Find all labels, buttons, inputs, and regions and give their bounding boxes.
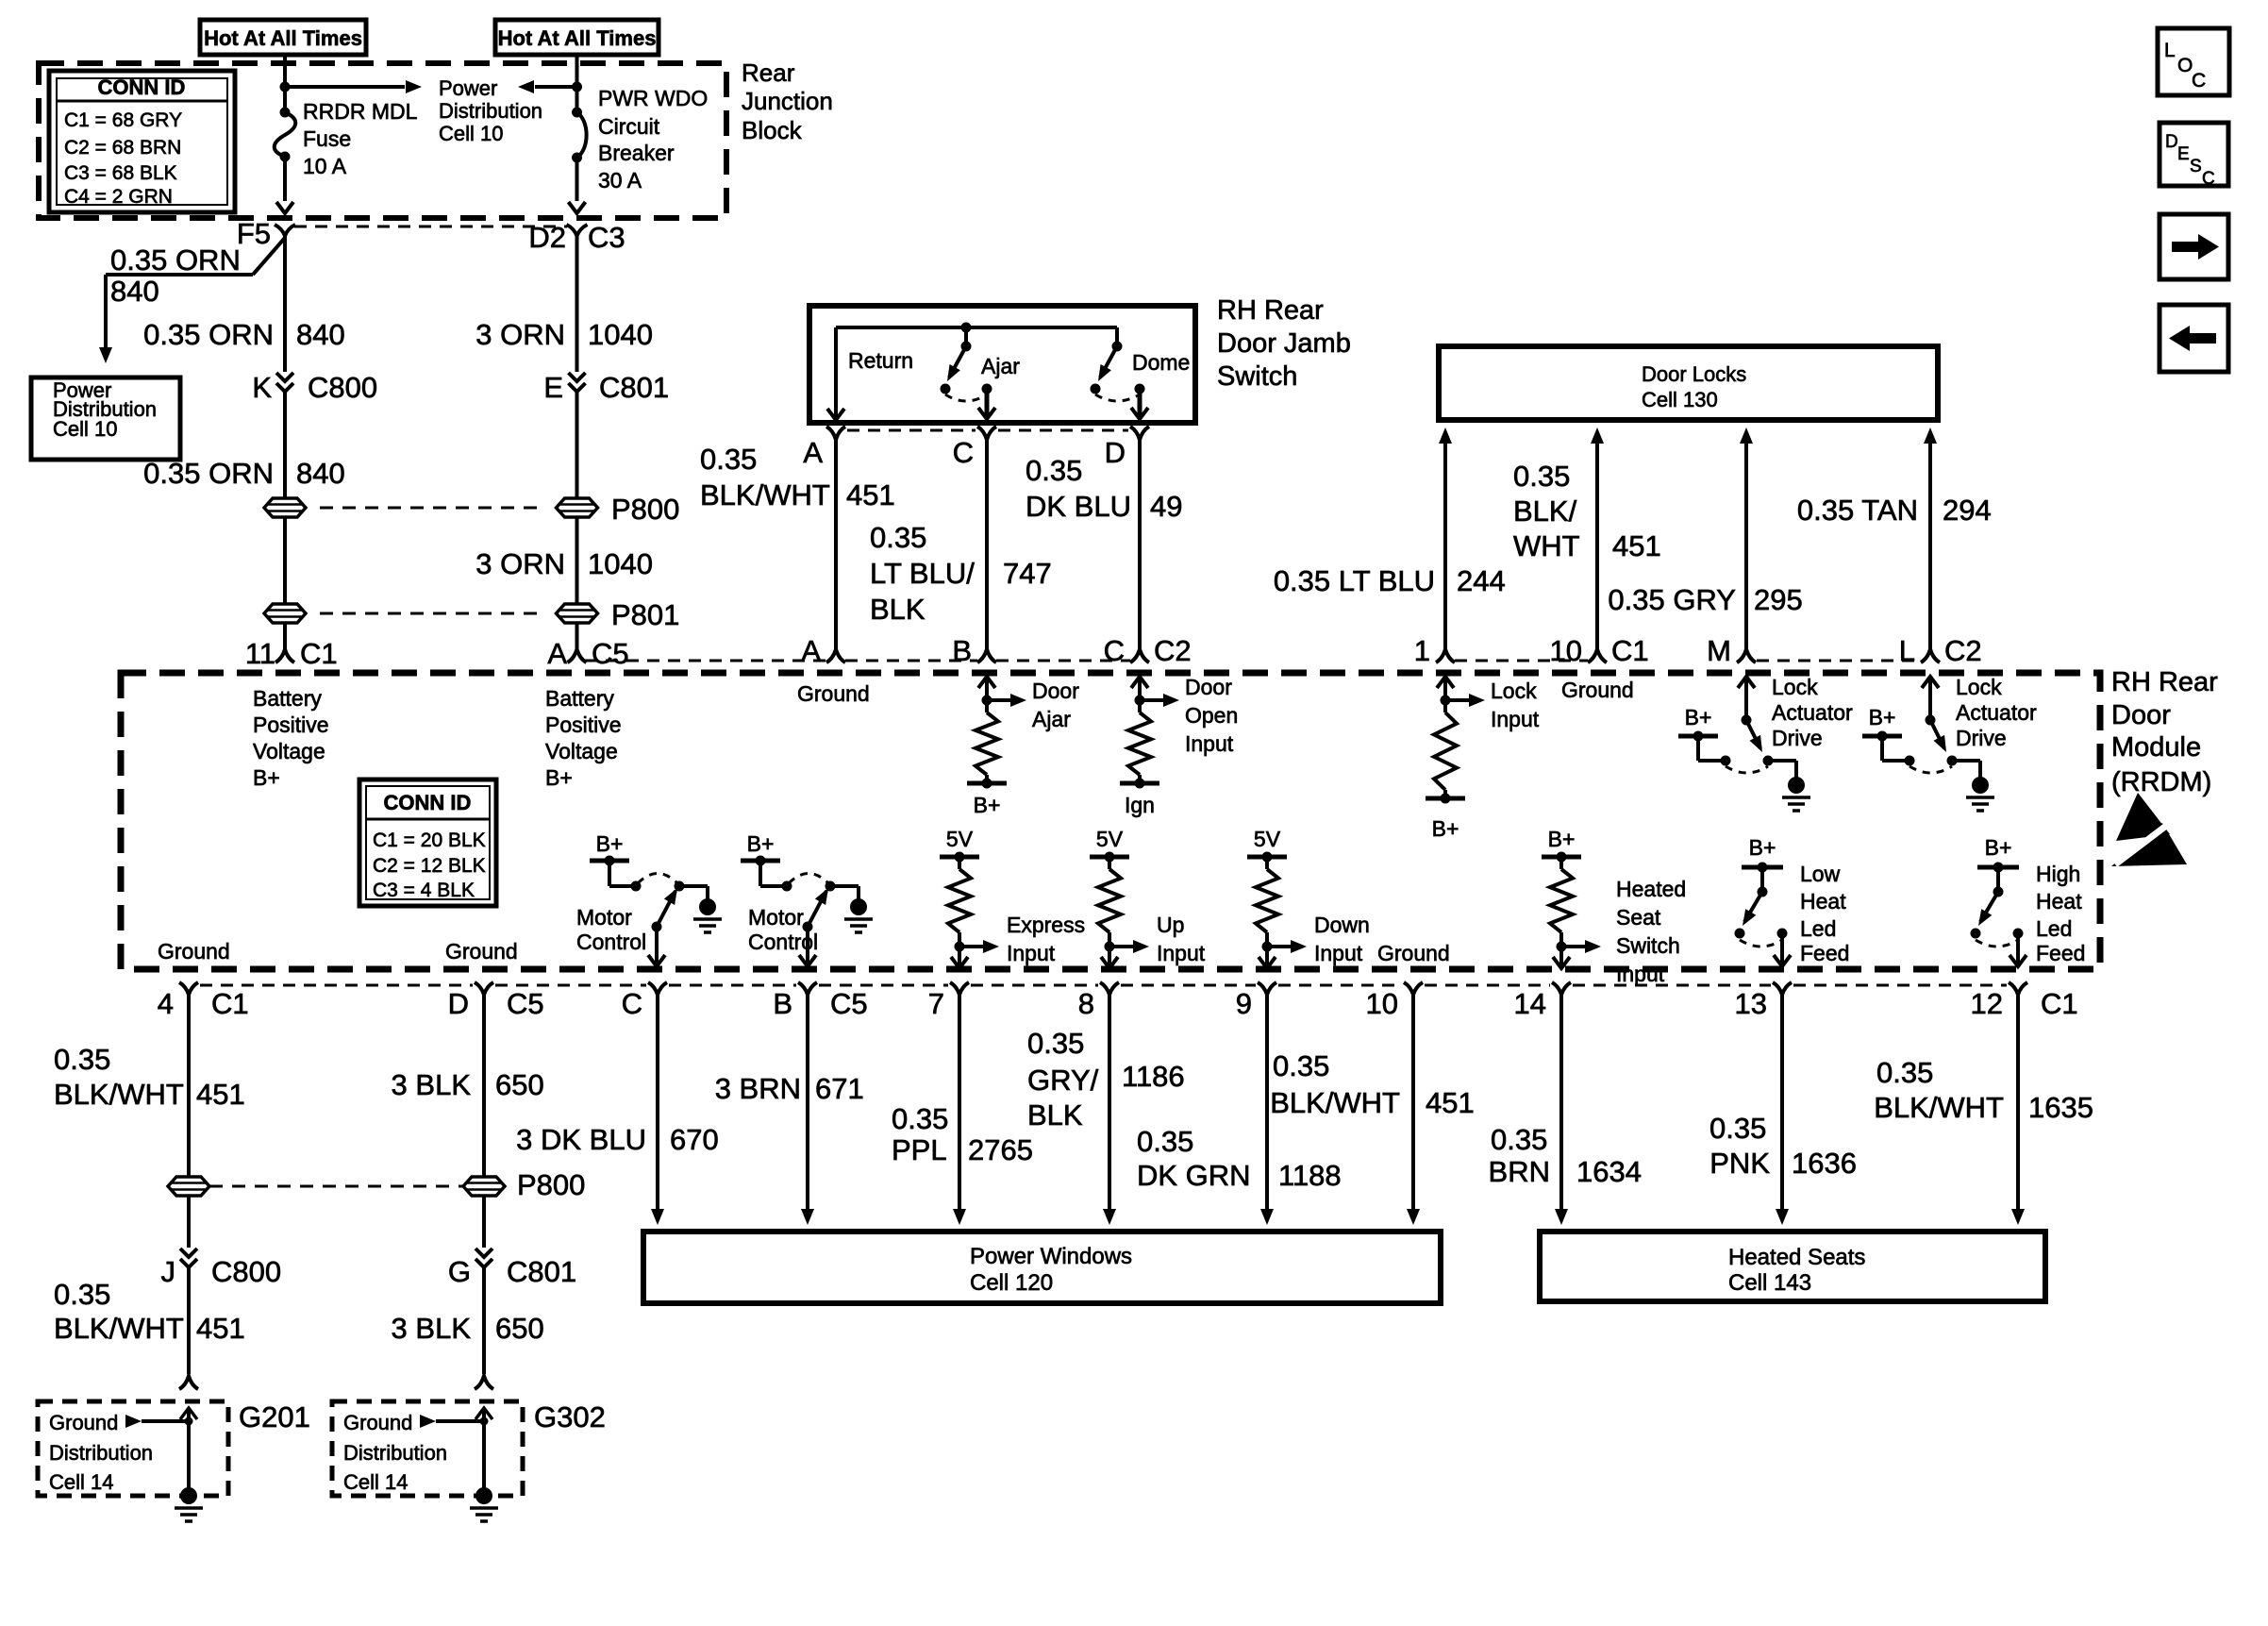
svg-text:C5: C5 (830, 987, 868, 1020)
svg-text:Dome: Dome (1132, 350, 1190, 375)
svg-text:1040: 1040 (588, 318, 653, 351)
svg-text:840: 840 (296, 457, 345, 490)
svg-text:G201: G201 (239, 1400, 310, 1433)
svg-text:Feed: Feed (2036, 941, 2085, 965)
svg-text:Open: Open (1185, 703, 1238, 728)
svg-text:WHT: WHT (1513, 529, 1580, 562)
svg-text:E: E (2177, 144, 2190, 164)
svg-text:BLK: BLK (870, 593, 926, 626)
svg-text:C5: C5 (592, 637, 629, 670)
svg-text:BLK: BLK (1027, 1098, 1083, 1131)
svg-text:13: 13 (1735, 987, 1767, 1020)
svg-text:3 ORN: 3 ORN (475, 318, 565, 351)
svg-text:RH Rear: RH Rear (2111, 667, 2218, 697)
svg-text:671: 671 (815, 1072, 864, 1105)
svg-text:A: A (547, 637, 567, 670)
svg-text:0.35: 0.35 (1513, 460, 1570, 493)
svg-text:Ground: Ground (1561, 678, 1634, 702)
svg-text:1635: 1635 (2028, 1091, 2093, 1124)
svg-text:0.35 GRY: 0.35 GRY (1608, 583, 1736, 616)
svg-text:0.35: 0.35 (700, 443, 757, 476)
svg-text:451: 451 (196, 1078, 245, 1111)
svg-text:Seat: Seat (1616, 905, 1661, 930)
svg-text:D: D (448, 987, 469, 1020)
svg-text:B+: B+ (1985, 835, 2012, 860)
svg-text:C3 = 4 BLK: C3 = 4 BLK (373, 880, 475, 901)
svg-text:C2: C2 (1944, 634, 1982, 667)
svg-text:C: C (2202, 169, 2215, 189)
svg-text:C4 = 2 GRN: C4 = 2 GRN (64, 186, 173, 208)
svg-text:Module: Module (2111, 732, 2201, 763)
svg-text:0.35 TAN: 0.35 TAN (1797, 494, 1918, 527)
svg-text:B+: B+ (596, 831, 624, 856)
svg-text:Circuit: Circuit (598, 114, 660, 139)
svg-text:C5: C5 (507, 987, 544, 1020)
svg-text:Ground: Ground (49, 1411, 118, 1434)
svg-text:Control: Control (576, 930, 646, 954)
svg-text:840: 840 (110, 275, 159, 308)
svg-text:Heat: Heat (2036, 889, 2082, 914)
svg-text:670: 670 (670, 1123, 719, 1156)
svg-text:C: C (622, 987, 642, 1020)
svg-text:(RRDM): (RRDM) (2111, 767, 2211, 797)
svg-text:Lock: Lock (1772, 675, 1818, 699)
svg-text:1186: 1186 (1122, 1060, 1185, 1093)
svg-text:D: D (1105, 436, 1126, 469)
svg-text:0.35: 0.35 (54, 1043, 110, 1076)
svg-text:Cell 130: Cell 130 (1642, 388, 1718, 411)
svg-text:Feed: Feed (1800, 941, 1849, 965)
svg-text:Power Windows: Power Windows (970, 1244, 1132, 1269)
svg-text:B+: B+ (1548, 827, 1576, 851)
svg-text:BRN: BRN (1489, 1155, 1550, 1188)
svg-text:Lock: Lock (1491, 679, 1537, 703)
svg-text:Actuator: Actuator (1956, 700, 2037, 725)
svg-text:14: 14 (1514, 987, 1546, 1020)
svg-text:Led: Led (1800, 916, 1836, 941)
svg-text:3 ORN: 3 ORN (475, 547, 565, 580)
svg-text:12: 12 (1971, 987, 2003, 1020)
svg-text:49: 49 (1150, 490, 1182, 523)
svg-text:295: 295 (1754, 583, 1803, 616)
svg-text:Cell 120: Cell 120 (970, 1270, 1053, 1296)
svg-text:M: M (1707, 634, 1731, 667)
svg-text:F5: F5 (237, 217, 271, 250)
svg-text:Door Jamb: Door Jamb (1217, 328, 1351, 359)
svg-text:DK GRN: DK GRN (1137, 1159, 1251, 1192)
svg-text:Positive: Positive (545, 712, 622, 737)
svg-text:1040: 1040 (588, 547, 653, 580)
svg-text:650: 650 (495, 1312, 544, 1345)
svg-text:J: J (161, 1255, 176, 1288)
svg-text:Block: Block (742, 116, 803, 144)
svg-text:11: 11 (245, 637, 275, 670)
svg-text:0.35: 0.35 (1709, 1112, 1766, 1145)
svg-text:Switch: Switch (1217, 361, 1297, 392)
svg-text:5V: 5V (946, 827, 974, 851)
svg-text:9: 9 (1236, 987, 1252, 1020)
svg-text:Heated: Heated (1616, 877, 1686, 901)
svg-text:650: 650 (495, 1068, 544, 1101)
svg-text:Rear: Rear (742, 59, 795, 87)
svg-text:D2: D2 (528, 221, 566, 254)
svg-text:P800: P800 (611, 493, 679, 526)
svg-text:0.35: 0.35 (892, 1102, 948, 1135)
svg-text:Ground: Ground (1377, 941, 1450, 965)
svg-text:Heated Seats: Heated Seats (1728, 1245, 1865, 1270)
svg-text:C: C (1104, 634, 1125, 667)
svg-text:Voltage: Voltage (253, 739, 325, 763)
svg-text:3 BLK: 3 BLK (392, 1312, 472, 1345)
svg-text:3 BLK: 3 BLK (392, 1068, 472, 1101)
svg-text:0.35: 0.35 (1027, 1027, 1084, 1060)
svg-text:Drive: Drive (1956, 726, 2007, 750)
svg-text:BLK/WHT: BLK/WHT (54, 1078, 184, 1111)
svg-text:2765: 2765 (968, 1133, 1033, 1166)
svg-text:0.35: 0.35 (1491, 1123, 1547, 1156)
svg-text:Power: Power (439, 76, 497, 100)
svg-text:Express: Express (1007, 913, 1085, 937)
svg-text:0.35 LT BLU: 0.35 LT BLU (1274, 564, 1435, 597)
svg-text:Low: Low (1800, 862, 1841, 886)
svg-text:G302: G302 (534, 1400, 606, 1433)
svg-text:7: 7 (928, 987, 944, 1020)
svg-text:C: C (953, 436, 974, 469)
svg-text:Door: Door (1032, 679, 1079, 703)
svg-text:C1: C1 (300, 637, 338, 670)
svg-text:C3: C3 (588, 221, 625, 254)
svg-text:B: B (773, 987, 792, 1020)
svg-text:P800: P800 (517, 1168, 585, 1201)
svg-text:451: 451 (196, 1312, 245, 1345)
svg-text:B+: B+ (1869, 705, 1896, 729)
svg-text:B+: B+ (1432, 816, 1459, 841)
svg-text:30 A: 30 A (598, 168, 642, 193)
svg-text:D: D (2165, 132, 2178, 152)
svg-text:Junction: Junction (742, 87, 833, 115)
svg-text:Ground: Ground (445, 939, 518, 964)
svg-text:Voltage: Voltage (545, 739, 618, 763)
svg-text:8: 8 (1078, 987, 1094, 1020)
svg-text:Input: Input (1314, 941, 1363, 965)
svg-text:Led: Led (2036, 916, 2072, 941)
svg-text:S: S (2190, 157, 2202, 176)
svg-text:Control: Control (748, 930, 818, 954)
svg-text:BLK/WHT: BLK/WHT (54, 1312, 184, 1345)
svg-text:Up: Up (1157, 913, 1184, 937)
svg-text:Drive: Drive (1772, 726, 1823, 750)
svg-text:CONN ID: CONN ID (384, 791, 472, 814)
svg-text:0.35 ORN: 0.35 ORN (143, 457, 274, 490)
svg-text:Distribution: Distribution (439, 99, 542, 123)
svg-text:5V: 5V (1096, 827, 1124, 851)
svg-text:Ground: Ground (158, 939, 230, 964)
svg-text:GRY/: GRY/ (1027, 1064, 1099, 1097)
svg-text:PPL: PPL (892, 1133, 947, 1166)
svg-text:Return: Return (848, 348, 913, 373)
svg-text:B+: B+ (747, 831, 775, 856)
svg-text:0.35: 0.35 (1026, 454, 1082, 487)
svg-text:Hot At All Times: Hot At All Times (498, 26, 657, 50)
svg-text:Door: Door (1185, 675, 1232, 699)
svg-text:0.35 ORN: 0.35 ORN (110, 243, 241, 277)
svg-text:DK BLU: DK BLU (1026, 490, 1131, 523)
svg-text:1636: 1636 (1792, 1147, 1857, 1180)
svg-text:Actuator: Actuator (1772, 700, 1853, 725)
svg-text:0.35: 0.35 (870, 521, 926, 554)
svg-text:C800: C800 (211, 1255, 281, 1288)
svg-text:Ajar: Ajar (981, 354, 1020, 378)
svg-text:3 BRN: 3 BRN (715, 1072, 801, 1105)
svg-text:G: G (448, 1255, 471, 1288)
svg-text:1188: 1188 (1278, 1159, 1342, 1192)
svg-text:Cell 14: Cell 14 (343, 1470, 408, 1494)
svg-text:Ajar: Ajar (1032, 707, 1071, 731)
svg-text:Switch: Switch (1616, 933, 1680, 958)
svg-text:Motor: Motor (576, 905, 632, 930)
svg-text:3 DK BLU: 3 DK BLU (516, 1123, 646, 1156)
svg-text:C800: C800 (308, 371, 377, 404)
svg-text:L: L (1899, 634, 1915, 667)
svg-text:Input: Input (1491, 707, 1540, 731)
svg-text:BLK/WHT: BLK/WHT (1874, 1091, 2004, 1124)
svg-text:Breaker: Breaker (598, 141, 675, 165)
svg-text:C1 = 20 BLK: C1 = 20 BLK (373, 830, 486, 851)
svg-text:Lock: Lock (1956, 675, 2002, 699)
svg-text:PWR WDO: PWR WDO (598, 86, 708, 110)
svg-text:C: C (2192, 70, 2206, 92)
svg-text:O: O (2177, 55, 2193, 76)
svg-text:Down: Down (1314, 913, 1370, 937)
svg-text:C2: C2 (1154, 634, 1192, 667)
svg-text:BLK/WHT: BLK/WHT (1270, 1086, 1400, 1119)
svg-text:B+: B+ (253, 765, 280, 790)
svg-text:10 A: 10 A (303, 154, 347, 178)
svg-text:Battery: Battery (545, 686, 614, 711)
svg-text:B+: B+ (545, 765, 573, 790)
svg-text:Cell 10: Cell 10 (439, 122, 503, 145)
svg-text:Heat: Heat (1800, 889, 1846, 914)
svg-text:244: 244 (1457, 564, 1506, 597)
svg-text:Battery: Battery (253, 686, 322, 711)
svg-text:Door: Door (2111, 700, 2171, 730)
svg-text:Input: Input (1616, 962, 1665, 986)
svg-text:Input: Input (1157, 941, 1206, 965)
svg-text:B+: B+ (1685, 705, 1712, 729)
svg-text:RRDR MDL: RRDR MDL (303, 99, 418, 124)
svg-text:Positive: Positive (253, 712, 329, 737)
svg-text:5V: 5V (1254, 827, 1281, 851)
svg-text:RH Rear: RH Rear (1217, 295, 1324, 326)
svg-text:LT BLU/: LT BLU/ (870, 557, 975, 590)
svg-text:Ground: Ground (797, 681, 870, 706)
svg-text:451: 451 (846, 478, 895, 511)
svg-text:1: 1 (1414, 634, 1430, 667)
svg-text:Input: Input (1007, 941, 1056, 965)
svg-text:BLK/: BLK/ (1513, 495, 1577, 528)
svg-text:840: 840 (296, 318, 345, 351)
svg-text:Ign: Ign (1125, 793, 1155, 817)
svg-text:E: E (543, 371, 563, 404)
svg-text:10: 10 (1550, 634, 1582, 667)
svg-text:4: 4 (158, 987, 174, 1020)
svg-text:A: A (801, 634, 821, 667)
svg-text:0.35: 0.35 (1876, 1056, 1933, 1089)
svg-text:C2 = 12 BLK: C2 = 12 BLK (373, 855, 486, 877)
svg-text:C2 = 68 BRN: C2 = 68 BRN (64, 137, 181, 159)
svg-text:Ground: Ground (343, 1411, 412, 1434)
svg-text:L: L (2164, 40, 2176, 61)
svg-text:C801: C801 (507, 1255, 576, 1288)
svg-text:C1 = 68 GRY: C1 = 68 GRY (64, 109, 182, 131)
svg-text:294: 294 (1943, 494, 1992, 527)
svg-text:C801: C801 (599, 371, 669, 404)
svg-text:PNK: PNK (1709, 1147, 1770, 1180)
svg-text:Distribution: Distribution (343, 1441, 447, 1465)
svg-text:C1: C1 (2041, 987, 2078, 1020)
svg-text:Cell 10: Cell 10 (53, 417, 117, 441)
svg-text:C1: C1 (1611, 634, 1649, 667)
svg-text:Door Locks: Door Locks (1642, 362, 1746, 386)
svg-text:451: 451 (1612, 529, 1661, 562)
svg-text:K: K (252, 371, 272, 404)
svg-text:0.35: 0.35 (1137, 1125, 1193, 1158)
svg-text:451: 451 (1426, 1086, 1475, 1119)
svg-text:747: 747 (1003, 557, 1052, 590)
svg-text:0.35: 0.35 (54, 1278, 110, 1311)
svg-text:B: B (952, 634, 972, 667)
svg-text:Hot At All Times: Hot At All Times (204, 26, 362, 50)
svg-text:0.35: 0.35 (1273, 1049, 1329, 1082)
svg-text:Cell 14: Cell 14 (49, 1470, 113, 1494)
svg-text:B+: B+ (1749, 835, 1776, 860)
svg-text:Cell 143: Cell 143 (1728, 1270, 1811, 1296)
svg-text:P801: P801 (611, 598, 679, 631)
svg-text:Fuse: Fuse (303, 126, 351, 151)
svg-text:Distribution: Distribution (49, 1441, 153, 1465)
svg-text:CONN ID: CONN ID (98, 75, 186, 99)
svg-text:B+: B+ (974, 793, 1001, 817)
svg-text:1634: 1634 (1576, 1155, 1642, 1188)
svg-text:Input: Input (1185, 731, 1234, 756)
svg-text:Motor: Motor (748, 905, 804, 930)
svg-text:A: A (803, 436, 823, 469)
svg-text:High: High (2036, 862, 2080, 886)
svg-text:C3 = 68 BLK: C3 = 68 BLK (64, 162, 177, 184)
svg-text:10: 10 (1366, 987, 1398, 1020)
svg-text:C1: C1 (211, 987, 249, 1020)
svg-text:0.35 ORN: 0.35 ORN (143, 318, 274, 351)
svg-text:BLK/WHT: BLK/WHT (700, 478, 830, 511)
